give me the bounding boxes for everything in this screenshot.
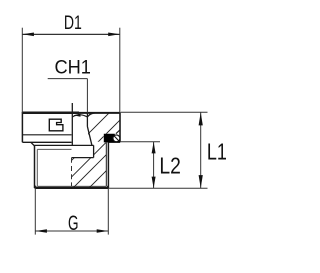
svg-text:D1: D1 <box>64 12 82 34</box>
svg-text:L1: L1 <box>207 139 227 165</box>
svg-text:G: G <box>68 212 79 235</box>
svg-text:CH1: CH1 <box>54 56 91 78</box>
svg-text:L2: L2 <box>159 152 181 178</box>
